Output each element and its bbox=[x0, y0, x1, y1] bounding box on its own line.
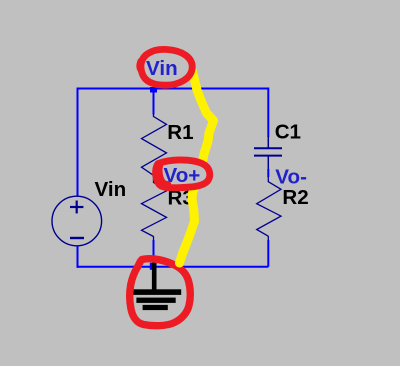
red annotation blob around ground symbol bbox=[130, 259, 191, 326]
node square bottom (ground junction) bbox=[150, 263, 157, 270]
node square top (Vin node junction) bbox=[150, 87, 157, 93]
yellow highlighter stroke lower segment bbox=[180, 188, 195, 264]
wire bottom horizontal bbox=[77, 266, 269, 268]
resistor R1 top lead bbox=[153, 114, 155, 117]
wire left vertical lower bbox=[77, 246, 79, 268]
wire right vertical upper bbox=[267, 88, 269, 138]
voltage source V1 circle bbox=[52, 196, 102, 246]
svg-text:R1: R1 bbox=[167, 121, 193, 144]
wire left vertical upper bbox=[77, 88, 79, 197]
ground symbol bbox=[133, 263, 181, 310]
resistor R3 zigzag bbox=[142, 183, 167, 237]
wire middle vertical lower to ground bbox=[153, 240, 155, 266]
capacitor C1 plates bbox=[254, 148, 282, 155]
red annotation blob around Vo+ label bbox=[156, 160, 210, 188]
red annotation overlap blob left of Vin ellipse bbox=[139, 61, 141, 71]
svg-text:Vin: Vin bbox=[95, 178, 127, 201]
wire right vertical lower bbox=[267, 240, 269, 267]
voltage source minus sign bbox=[70, 237, 84, 239]
wire middle vertical upper bbox=[153, 89, 155, 115]
red annotation overlap tail on left of Vo+ blob bbox=[159, 164, 168, 185]
resistor R1 zigzag bbox=[142, 117, 167, 176]
resistor R3 bottom lead bbox=[153, 236, 155, 241]
wire right between capacitor and R2 bbox=[267, 169, 269, 177]
resistor R2 bottom lead bbox=[267, 236, 269, 241]
capacitor C1 top lead bbox=[267, 136, 269, 148]
red annotation ellipse around Vin label bbox=[141, 49, 192, 85]
resistor R2 top lead bbox=[267, 177, 269, 183]
voltage source plus sign bbox=[70, 201, 83, 214]
wire middle between R1 and R3 bbox=[153, 175, 155, 183]
wire top horizontal bbox=[78, 88, 269, 90]
svg-text:R2: R2 bbox=[282, 186, 308, 209]
yellow highlighter stroke from Vin node down to ground bbox=[193, 72, 214, 162]
resistor R2 zigzag bbox=[257, 182, 281, 237]
svg-text:Vin: Vin bbox=[146, 57, 178, 80]
capacitor C1 bottom lead bbox=[267, 156, 269, 170]
svg-text:C1: C1 bbox=[275, 121, 301, 144]
